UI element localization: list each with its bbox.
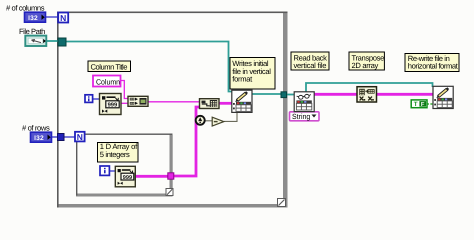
svg-text:N: N bbox=[60, 13, 66, 23]
svg-text:format: format bbox=[232, 75, 253, 84]
svg-text:# of rows: # of rows bbox=[22, 123, 50, 132]
svg-text:F: F bbox=[421, 102, 425, 108]
svg-text:String: String bbox=[292, 112, 310, 121]
svg-text:Column Title: Column Title bbox=[91, 63, 128, 72]
svg-text:5 integers: 5 integers bbox=[100, 150, 130, 159]
svg-text:I32: I32 bbox=[28, 15, 38, 22]
svg-text:File Path: File Path bbox=[19, 27, 45, 36]
svg-text:# of columns: # of columns bbox=[6, 3, 45, 12]
svg-text:horizontal format: horizontal format bbox=[408, 62, 459, 71]
svg-text:N: N bbox=[77, 132, 83, 142]
svg-text:999: 999 bbox=[123, 175, 132, 181]
svg-text:Column: Column bbox=[96, 77, 120, 86]
svg-text:2D array: 2D array bbox=[352, 61, 379, 70]
svg-text:vertical file: vertical file bbox=[294, 61, 327, 70]
svg-text:T: T bbox=[414, 101, 418, 108]
svg-text:I32: I32 bbox=[34, 135, 44, 142]
svg-text:999: 999 bbox=[108, 102, 118, 109]
